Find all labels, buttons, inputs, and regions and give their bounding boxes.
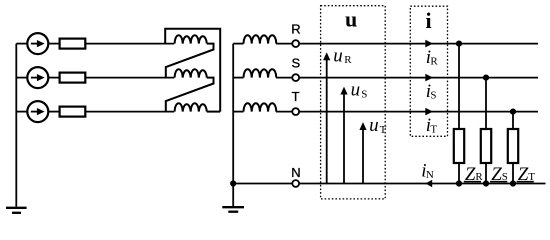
transformer primary winding L1: [175, 35, 207, 43]
svg-text:S: S: [292, 56, 301, 71]
wire R2 to transformer: [85, 77, 174, 79]
wire bus to line inductor L5: [233, 77, 243, 79]
terminal R: [292, 40, 299, 47]
wire L1 end zigzag to node S: [166, 44, 214, 78]
wire I3 to R3: [48, 111, 60, 113]
voltage arrow uR: [323, 52, 330, 183]
wire delta closure riser: [165, 29, 220, 112]
i measurement box (dotted): [410, 6, 447, 136]
wire left bus: [15, 44, 17, 207]
wire ZR branch lower: [458, 163, 460, 184]
node ZT-N junction: [510, 180, 516, 186]
svg-text:R: R: [430, 56, 438, 68]
current source I1: [27, 33, 48, 54]
wire bus to source I2: [16, 77, 27, 79]
wire ZT branch lower: [512, 163, 514, 184]
current source I3: [27, 101, 48, 122]
wire phase T line: [276, 111, 538, 113]
u measurement box (dotted): [321, 6, 386, 199]
current source I2: [27, 67, 48, 88]
svg-text:R: R: [344, 54, 352, 66]
svg-text:T: T: [292, 89, 300, 104]
wire R1 to transformer: [85, 43, 174, 45]
resistor R2: [60, 73, 86, 83]
svg-text:u: u: [351, 80, 361, 101]
impedance ZT: [508, 129, 518, 163]
wire ZT branch upper: [512, 112, 514, 129]
svg-text:T: T: [430, 124, 437, 136]
wire ZR branch upper: [458, 44, 460, 129]
svg-text:R: R: [291, 22, 300, 37]
wire bus to source I1: [16, 43, 27, 45]
wire L2 end zigzag to node T: [166, 78, 214, 112]
line inductor L5: [244, 69, 277, 77]
node bus-N junction: [230, 180, 236, 186]
wire phase S line: [276, 77, 538, 79]
resistor R1: [60, 39, 86, 49]
impedance ZR: [454, 129, 464, 163]
voltage arrow uS: [340, 87, 347, 184]
svg-text:S: S: [430, 90, 436, 102]
ground (middle): [222, 207, 244, 212]
impedance ZS: [481, 129, 491, 163]
wire ZS branch lower: [485, 163, 487, 184]
current arrow iT: [425, 108, 433, 116]
svg-text:u: u: [333, 45, 343, 66]
line inductor L6: [244, 103, 277, 111]
current arrow iN (leftward): [426, 180, 433, 188]
current arrow iS: [425, 74, 433, 82]
wire L3 end to right closure: [207, 111, 220, 113]
node R-ZR junction: [456, 41, 462, 47]
node S-ZS junction: [483, 75, 489, 81]
wire neutral N line: [233, 183, 545, 185]
wire R3 to transformer: [85, 111, 174, 113]
terminal N: [292, 180, 299, 187]
wire secondary bus: [232, 44, 234, 184]
svg-text:i: i: [426, 8, 432, 33]
wire bus to source I3: [16, 111, 27, 113]
line inductor L4: [244, 35, 277, 43]
wire I2 to R2: [48, 77, 60, 79]
transformer primary winding L3: [175, 103, 207, 111]
label ZR: [464, 164, 484, 185]
svg-text:u: u: [345, 6, 357, 31]
label ZT: [517, 164, 536, 185]
current arrow iR: [425, 40, 433, 48]
node ZS-N junction: [483, 180, 489, 186]
svg-text:u: u: [369, 115, 379, 136]
wire bus to line inductor L6: [233, 111, 243, 113]
wire phase R line: [276, 43, 538, 45]
voltage arrow uT: [359, 122, 366, 183]
terminal S: [292, 74, 299, 81]
svg-text:N: N: [291, 165, 300, 180]
svg-text:T: T: [380, 124, 387, 136]
terminal T: [292, 108, 299, 115]
wire I1 to R1: [48, 43, 60, 45]
node ZR-N junction: [456, 180, 462, 186]
svg-text:S: S: [361, 88, 367, 100]
ground (left): [6, 208, 27, 213]
wire bus to line inductor L4: [233, 43, 243, 45]
svg-text:N: N: [426, 169, 434, 181]
resistor R3: [60, 107, 86, 117]
label ZS: [490, 164, 508, 185]
wire ZS branch upper: [485, 78, 487, 129]
transformer primary winding L2: [175, 69, 207, 77]
wire bus to ground (middle): [232, 184, 234, 207]
node T-ZT junction: [510, 109, 516, 115]
